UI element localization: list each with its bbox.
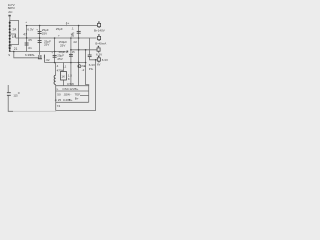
node rail C <box>54 38 56 63</box>
capacitor C7 (output row 4) <box>88 55 92 57</box>
wire bottom rail <box>45 62 86 64</box>
capacitor C8 (vertical plates on lower wire) <box>38 55 45 63</box>
svg-text:50: 50 <box>57 93 61 97</box>
transformer T1 winding <box>9 21 11 52</box>
label AC input text block <box>8 3 16 14</box>
svg-text:K: K <box>68 77 70 81</box>
node stub junction <box>66 25 67 26</box>
label C5 values left <box>58 40 67 54</box>
label box row1 <box>57 87 79 91</box>
svg-text:.05: .05 <box>70 34 75 38</box>
label C2 value <box>44 39 51 46</box>
svg-text:74: 74 <box>57 104 61 108</box>
node rail F <box>86 50 89 86</box>
svg-text:B+: B+ <box>75 87 79 91</box>
svg-text:1K: 1K <box>61 75 65 79</box>
svg-text:+: + <box>25 20 27 24</box>
label rail A texts <box>25 20 34 57</box>
svg-text:25μF: 25μF <box>56 27 63 31</box>
terminal J3 <box>97 46 100 53</box>
wire top primary loop <box>10 21 19 45</box>
wire output row 3 <box>71 49 97 51</box>
label box row3 <box>58 98 73 102</box>
capacitor C6 (rail D) <box>77 31 81 33</box>
svg-text:.02: .02 <box>73 40 78 44</box>
lamp NE2 circle <box>78 65 81 68</box>
label R1 <box>57 64 64 72</box>
svg-text:B+: B+ <box>75 97 79 101</box>
label box row2 <box>57 92 80 100</box>
label pilot <box>89 63 95 71</box>
wire stub above rail <box>66 22 68 25</box>
svg-text:25V: 25V <box>42 31 47 35</box>
oscillator box <box>56 85 89 103</box>
svg-text:6.3V: 6.3V <box>102 58 108 62</box>
svg-text:AC: AC <box>8 10 13 14</box>
svg-text:L1: L1 <box>63 65 67 69</box>
wire top rail <box>27 25 98 27</box>
label plug mark <box>8 15 10 17</box>
wire lower left line <box>14 52 39 58</box>
capacitor C5 (rail E) <box>69 54 73 56</box>
label NE2 <box>82 64 86 72</box>
svg-text:25: 25 <box>58 98 62 102</box>
svg-text:-2: -2 <box>82 68 85 72</box>
transformer winding bumps <box>9 22 11 52</box>
wire faint bottom left <box>13 110 56 113</box>
node rail E <box>70 38 72 63</box>
svg-text:21: 21 <box>14 47 18 51</box>
svg-text:+: + <box>58 33 60 37</box>
svg-text:PIL: PIL <box>89 67 94 71</box>
wire tap step <box>10 34 16 38</box>
svg-text:10μF: 10μF <box>58 50 65 54</box>
svg-text:6V: 6V <box>97 62 101 66</box>
wire jumper <box>89 38 91 50</box>
label R2 right <box>67 73 74 85</box>
switch S1 contacts <box>7 93 11 96</box>
terminal J2 <box>98 34 101 41</box>
wire mid rail <box>10 51 66 53</box>
wire AC input drop <box>9 17 11 21</box>
svg-text:B+140V: B+140V <box>94 28 105 32</box>
capacitor C2 (rail B lower) <box>38 41 42 43</box>
label mid plus <box>66 51 68 53</box>
label S1 dash <box>18 92 20 95</box>
svg-text:-: - <box>70 92 71 96</box>
capacitor C3 (rail A) <box>25 43 29 45</box>
svg-text:ON-: ON- <box>30 53 35 57</box>
svg-text:.01: .01 <box>28 46 33 50</box>
svg-text:115: 115 <box>13 93 18 97</box>
background <box>0 0 111 120</box>
svg-text:25V: 25V <box>44 43 49 47</box>
svg-text:6.3V: 6.3V <box>27 28 33 32</box>
junction dots <box>13 25 96 101</box>
resistor R1 (coil bumps) <box>54 75 56 84</box>
svg-text:B-40mA: B-40mA <box>95 42 106 46</box>
svg-text:B+: B+ <box>69 98 73 102</box>
label C8 text <box>30 53 50 62</box>
label C4 value <box>57 53 64 60</box>
resistor R2 box <box>61 72 67 81</box>
wire box stub <box>55 102 57 110</box>
terminal J4 <box>97 56 100 63</box>
node rail A <box>26 26 28 52</box>
svg-text:.1: .1 <box>71 27 74 31</box>
svg-text:60Hz: 60Hz <box>8 6 16 10</box>
svg-text:.02W: .02W <box>63 93 70 97</box>
label C1 value <box>42 28 49 35</box>
svg-text:0.5W: 0.5W <box>67 82 74 86</box>
svg-text:1P: 1P <box>12 35 16 39</box>
svg-text:27: 27 <box>8 45 12 49</box>
wire long mid line B <box>16 37 97 39</box>
node rail D <box>78 26 80 86</box>
svg-text:S: S <box>8 53 10 57</box>
capacitor C4 (rail C) <box>53 55 57 57</box>
wire L1 drop <box>62 63 64 86</box>
wire E lower <box>70 63 72 86</box>
svg-text:47: 47 <box>23 33 27 37</box>
svg-text:25V: 25V <box>57 57 62 61</box>
label top rail texts <box>56 21 70 38</box>
svg-text:.05: .05 <box>28 38 33 42</box>
svg-text:15: 15 <box>72 50 75 54</box>
svg-text:.02: .02 <box>45 58 50 62</box>
label C6 text <box>70 27 77 45</box>
wire bottom return <box>56 110 96 112</box>
svg-text:25V: 25V <box>60 44 65 48</box>
capacitor C1 (rail B upper) <box>38 32 42 34</box>
wire output row 4 <box>90 50 97 111</box>
node rail B <box>39 26 41 55</box>
wire switch branch <box>8 85 13 111</box>
terminal J1 <box>98 21 101 28</box>
wire resistor drop <box>55 63 57 86</box>
